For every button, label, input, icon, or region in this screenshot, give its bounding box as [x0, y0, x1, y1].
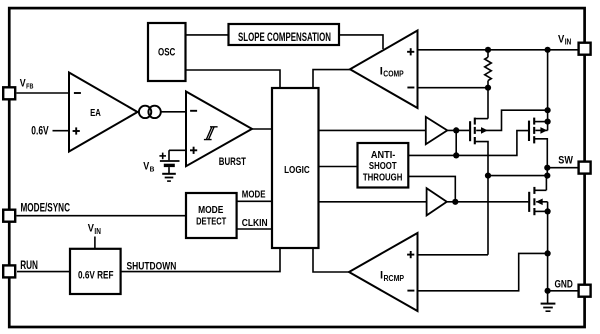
battery plus sign: [159, 153, 166, 160]
block OSC: [148, 23, 186, 81]
op-amp EA error amplifier: [69, 73, 138, 152]
block ANTI-SHOOT THROUGH: [358, 143, 409, 188]
wire LOGIC to buffer A input: [319, 129, 426, 131]
svg-text:IN: IN: [565, 37, 572, 47]
wire Q2 body lead: [535, 129, 547, 131]
label EA plus: [73, 127, 80, 134]
ground at GND pin: [541, 304, 556, 312]
wire OSC to LOGIC top: [186, 70, 281, 88]
comparator IRCMP: [349, 233, 418, 311]
wire LOGIC to buffer B input: [319, 201, 427, 203]
transistor Q2 right PMOS: [529, 118, 534, 144]
wire BURST output to LOGIC: [252, 128, 272, 130]
wire SW node vertical: [546, 168, 548, 176]
svg-text:SW: SW: [558, 155, 573, 167]
svg-text:MODE: MODE: [242, 190, 266, 201]
wire Q2 source lead down to SW: [534, 139, 547, 168]
label BURST minus: [190, 110, 197, 112]
transistor Q3 body arrow: [536, 199, 543, 206]
node gate line tie: [453, 152, 459, 158]
block LOGIC: [272, 88, 319, 248]
node Q1 body tie: [545, 107, 551, 113]
buffer B bottom gate driver: [427, 188, 447, 215]
wire buffer A output tie-down: [455, 130, 457, 155]
wire Q1 source lead down to SW and IRCMP +: [475, 142, 488, 255]
wire resistor top stub: [487, 50, 489, 57]
ground below battery VB: [162, 174, 176, 181]
label ICOMP plus: [407, 48, 414, 55]
svg-text:COMP: COMP: [383, 69, 404, 79]
wire anti-shoot top output to Q2 gate: [408, 131, 528, 156]
svg-text:V: V: [143, 160, 149, 172]
svg-text:0.6V: 0.6V: [31, 125, 49, 138]
svg-text:FB: FB: [26, 82, 34, 91]
label IRCMP minus: [407, 290, 414, 292]
wire ICOMP output to LOGIC top: [313, 70, 350, 88]
wire Q3 source down to GND node: [547, 202, 549, 291]
current source symbol at EA output: [139, 106, 161, 118]
wire current mirror to BURST - input: [161, 111, 186, 113]
svg-text:OSC: OSC: [158, 46, 175, 58]
wire Q1 drain lead: [475, 118, 488, 120]
wire EA output to current mirror: [138, 111, 140, 113]
block SLOPE COMPENSATION: [229, 24, 340, 45]
svg-text:MODE/SYNC: MODE/SYNC: [21, 201, 71, 214]
svg-text:B: B: [150, 164, 155, 173]
wire Q3 drain to SW rail: [534, 176, 546, 191]
wire IRCMP + input: [418, 254, 489, 256]
svg-text:MODE: MODE: [198, 205, 224, 216]
wire CLKIN output: [237, 228, 272, 230]
node GND junction: [545, 288, 551, 294]
node buffer A output: [453, 127, 459, 133]
wire battery to BURST + input: [169, 150, 186, 160]
wire SHUTDOWN to LOGIC bottom: [121, 248, 280, 272]
hysteresis symbol inside BURST: [204, 127, 218, 140]
block MODE DETECT: [186, 193, 237, 238]
wire buffer B output to Q3 gate: [447, 201, 529, 203]
wire VIN branch to Q2 body: [547, 50, 549, 131]
transistor Q1 top PMOS: [470, 118, 475, 145]
svg-text:SHUTDOWN: SHUTDOWN: [127, 260, 177, 272]
transistor Q1 body arrow: [481, 127, 488, 134]
svg-text:EA: EA: [90, 107, 101, 119]
wire buffer A output to Q1 gate: [447, 129, 469, 131]
pin pad GND: [579, 285, 591, 297]
wire MODE/SYNC to MODE DETECT: [17, 215, 187, 217]
svg-text:CLKIN: CLKIN: [242, 218, 268, 229]
transistor Q2 body arrow: [540, 127, 547, 134]
wire SW node to pad: [547, 167, 578, 169]
node VIN-branch junction: [545, 47, 551, 53]
battery VB: [160, 161, 180, 173]
wire RUN to 0.6V REF: [17, 271, 70, 273]
node resistor bottom junction: [485, 85, 491, 91]
svg-text:IN: IN: [94, 226, 101, 236]
node Q3 source junction: [545, 208, 551, 214]
svg-text:RCMP: RCMP: [384, 273, 405, 283]
pin pad RUN: [3, 265, 15, 277]
block 0.6V REF: [70, 249, 121, 294]
node VIN-resistor junction: [485, 47, 491, 53]
svg-text:BURST: BURST: [219, 156, 246, 168]
label IRCMP plus: [407, 251, 414, 258]
wire VIN to 0.6V REF top: [94, 237, 96, 249]
resistor VIN current sense: [485, 57, 492, 80]
wire IRCMP output to LOGIC bottom: [313, 248, 349, 272]
node IRCMP minus sense junction: [545, 250, 551, 256]
svg-text:GND: GND: [555, 278, 573, 290]
comparator BURST: [186, 92, 252, 167]
wire Q2 drain lead: [534, 121, 547, 123]
node SW pad junction: [544, 165, 550, 171]
pin pad VFB: [3, 87, 15, 99]
svg-text:THROUGH: THROUGH: [363, 173, 403, 184]
wire Q3 source lead: [534, 210, 547, 212]
pin pad VIN: [579, 43, 591, 55]
svg-text:SLOPE COMPENSATION: SLOPE COMPENSATION: [238, 30, 331, 44]
wire IRCMP - input jog to GND-side sense: [418, 253, 548, 290]
wire anti-shoot bottom output to buffer B node: [408, 176, 455, 201]
wire ICOMP - input to sense resistor: [418, 87, 489, 89]
pin pad SW: [579, 162, 591, 174]
label ICOMP minus: [407, 87, 414, 89]
svg-text:SHOOT: SHOOT: [369, 161, 397, 172]
wire Q1 body lead to VIN branch: [476, 110, 547, 130]
node SW sense junction: [485, 173, 491, 179]
svg-text:LOGIC: LOGIC: [284, 165, 310, 176]
node SW lower junction: [544, 173, 550, 179]
svg-text:ANTI-: ANTI-: [371, 150, 395, 161]
pin pad MODE/SYNC: [3, 210, 15, 222]
svg-text:DETECT: DETECT: [196, 216, 226, 227]
node Q2 drain tie: [545, 119, 551, 125]
comparator ICOMP: [350, 31, 418, 109]
wire 0.6V to EA + input: [53, 130, 70, 132]
wire OSC to SLOPE COMPENSATION: [186, 34, 229, 36]
svg-text:RUN: RUN: [20, 259, 38, 272]
wire GND node to pad: [548, 290, 579, 292]
svg-text:0.6V REF: 0.6V REF: [78, 269, 114, 281]
wire SW lower rail: [488, 175, 547, 177]
label BURST plus: [190, 147, 197, 154]
wire GND node to ground symbol: [547, 291, 549, 304]
wire Q3 body lead: [536, 201, 547, 203]
node buffer B output: [452, 199, 458, 205]
wire LOGIC to anti-shoot input: [319, 166, 358, 168]
wire MODE output: [237, 200, 272, 202]
wire VFB to EA - input: [17, 92, 70, 94]
label EA minus: [74, 92, 81, 94]
wire SLOPE COMPENSATION to ICOMP: [339, 35, 383, 49]
buffer A top gate driver: [426, 117, 448, 144]
wire resistor bottom to Q1 drain: [487, 81, 489, 119]
wire VIN rail: [418, 49, 579, 51]
transistor Q3 bottom NMOS: [529, 187, 534, 215]
